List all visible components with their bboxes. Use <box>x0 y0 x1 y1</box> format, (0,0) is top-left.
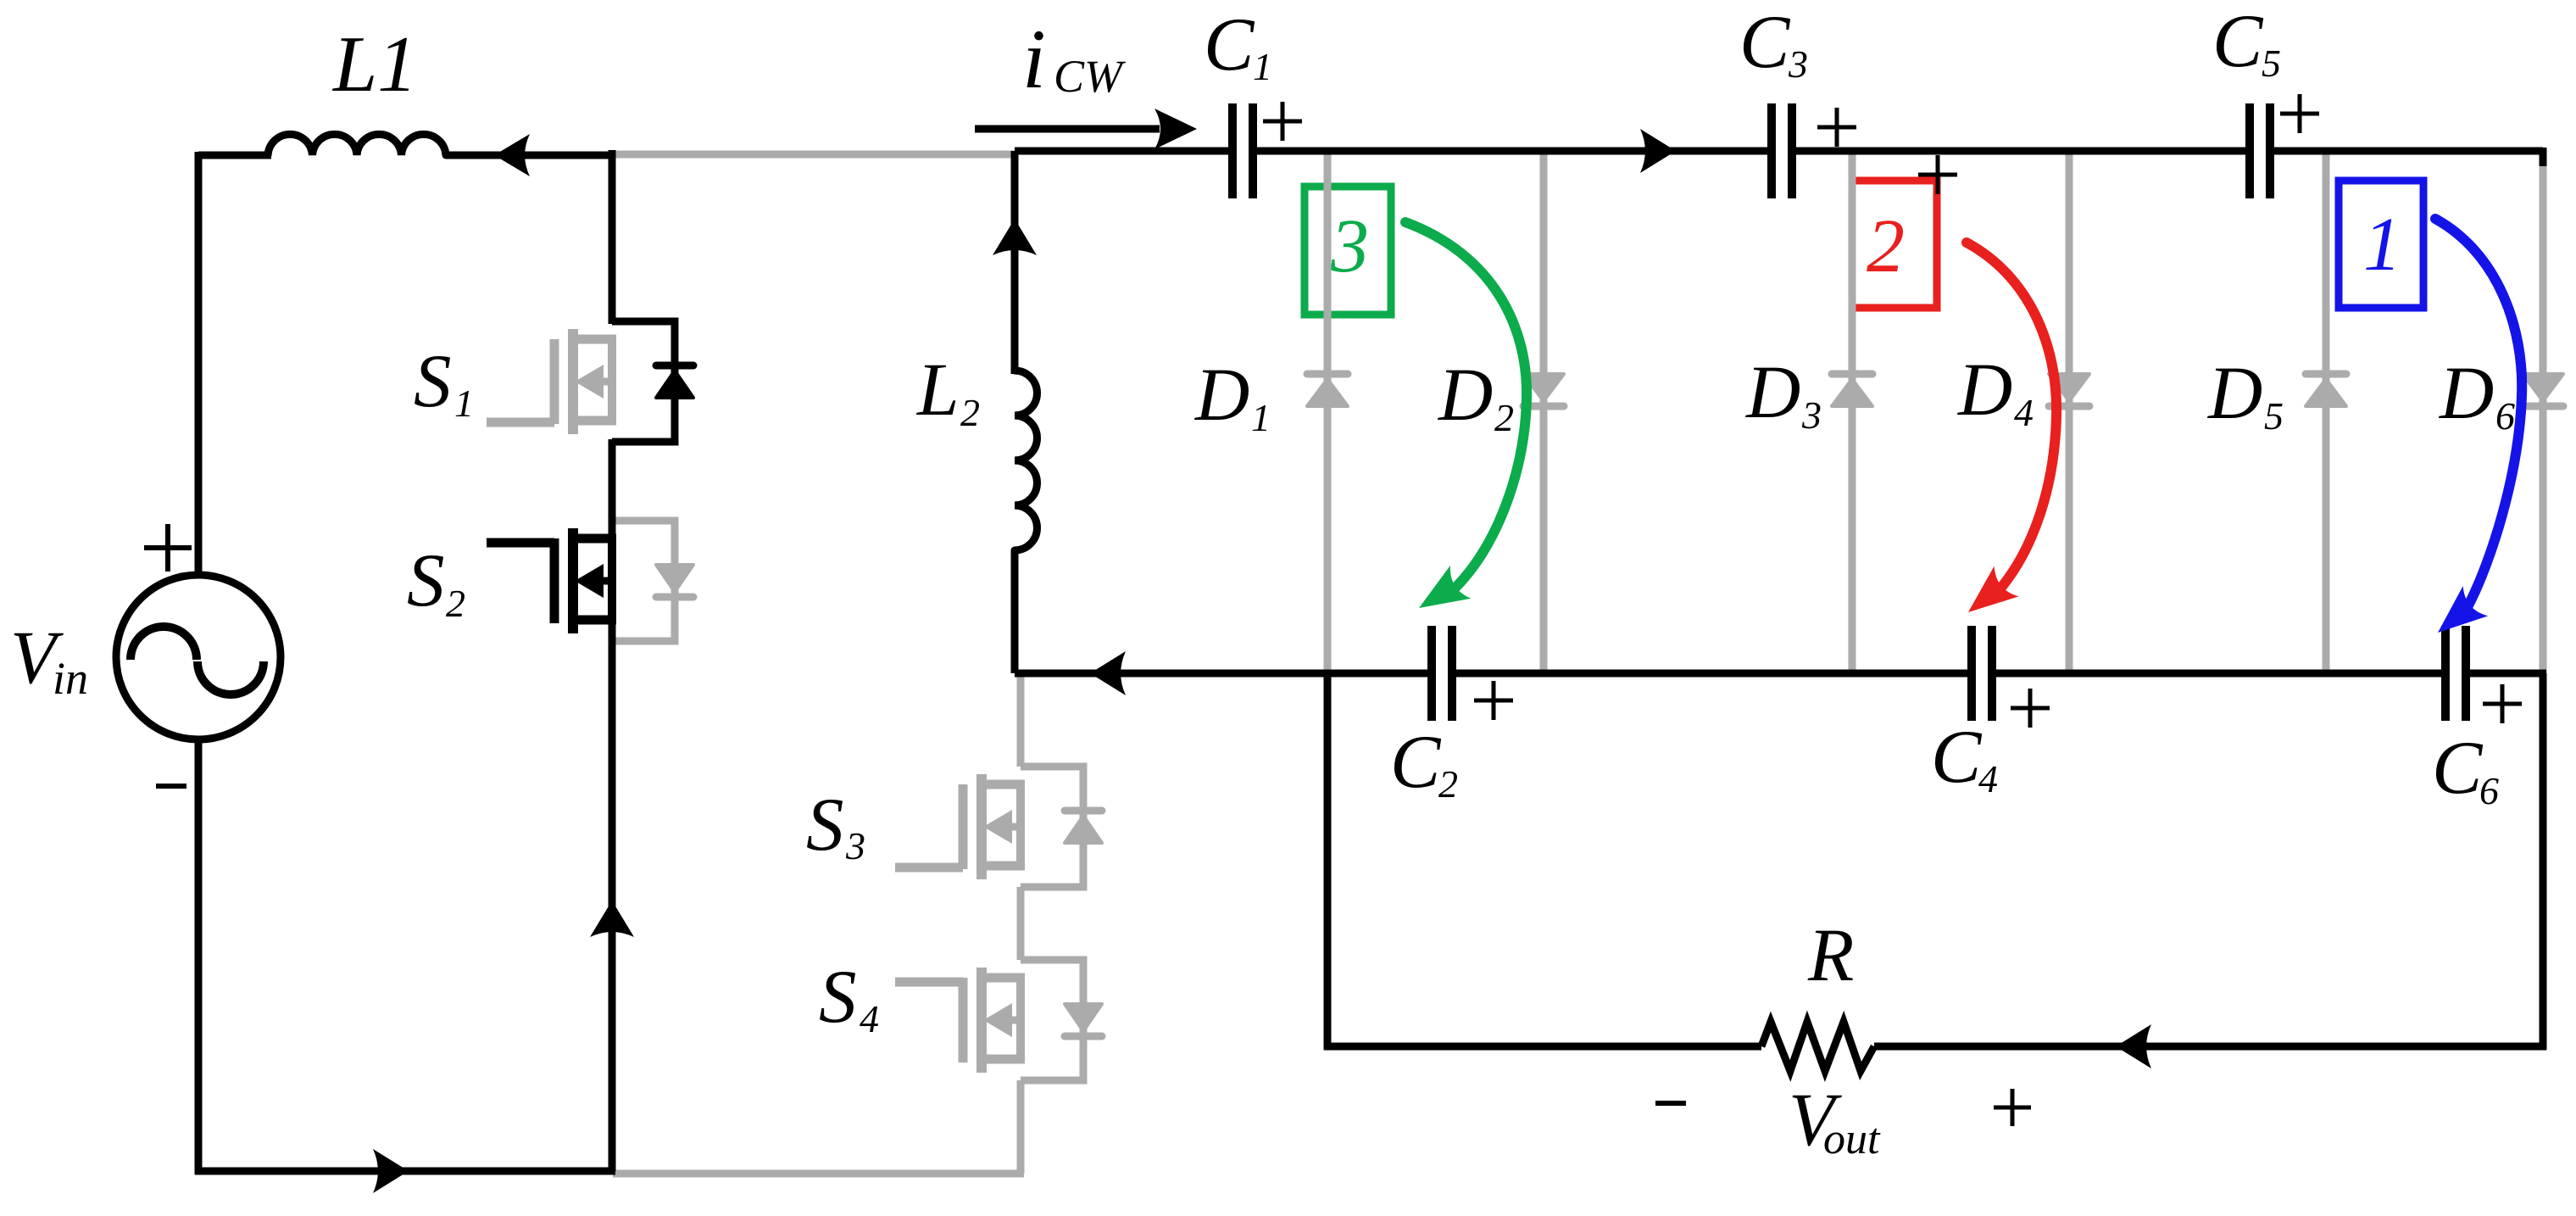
svg-text:C: C <box>1390 721 1442 804</box>
wire Vin bottom vertical <box>195 739 203 1174</box>
diode D3 <box>1832 374 1872 406</box>
inductor L2 <box>1015 371 1038 550</box>
label C5 <box>2212 0 2281 85</box>
svg-text:D: D <box>2439 352 2494 435</box>
svg-text:D: D <box>1194 354 1249 437</box>
resistor R <box>1761 1022 1874 1071</box>
svg-text:3: 3 <box>845 824 865 867</box>
wire Vin top vertical <box>195 152 203 575</box>
charge transfer arrow 2 (red) <box>1956 243 2057 628</box>
label L2 <box>915 349 980 434</box>
capacitor C1 <box>1232 103 1253 198</box>
wire S3 source to S4 drain <box>1017 887 1025 960</box>
label Vin <box>10 616 88 704</box>
current arrow bottom (right) <box>373 1149 409 1193</box>
svg-text:4: 4 <box>860 997 879 1040</box>
capacitor C2 <box>1432 626 1452 721</box>
wire middle rail seg3 <box>1992 670 2445 678</box>
label C4 <box>1931 716 1998 800</box>
svg-text:S: S <box>414 340 452 423</box>
capacitor C5 <box>2250 103 2270 198</box>
plus sign C3 <box>1817 108 1856 147</box>
loop marker box 2 (red) <box>1852 181 1937 308</box>
current arrow into L1 (left) <box>494 134 530 176</box>
label S3 <box>806 784 865 867</box>
svg-text:S: S <box>819 956 857 1039</box>
current arrow output (left) <box>2116 1024 2151 1068</box>
charge transfer arrow 1 (blue) <box>2425 219 2522 648</box>
wire middle rail seg1 <box>1015 670 1432 678</box>
current arrow top rail (right) <box>1640 129 1676 173</box>
wire switch branch upper <box>609 150 616 324</box>
svg-text:C: C <box>1931 716 1983 799</box>
wire diode branch D6 <box>2540 151 2547 673</box>
svg-text:S: S <box>407 539 445 622</box>
svg-text:2: 2 <box>1867 204 1905 288</box>
svg-text:5: 5 <box>2264 394 2284 438</box>
label C2 <box>1390 721 1458 806</box>
transistor S2 <box>487 528 616 633</box>
diode D1 <box>1307 374 1348 406</box>
label C3 <box>1739 1 1808 86</box>
sine wave in source <box>131 627 264 694</box>
label R <box>1807 914 1854 997</box>
svg-text:R: R <box>1807 914 1854 997</box>
svg-text:1: 1 <box>1253 45 1272 88</box>
wire L2 riser top <box>1011 151 1019 374</box>
wire top rail seg3 <box>1792 148 2250 155</box>
transistor S1 (mosfet symbol, inactive gray) <box>487 329 616 434</box>
svg-text:out: out <box>1823 1115 1881 1163</box>
loop marker label 1 (blue) <box>2363 203 2401 287</box>
diode D6 <box>2523 374 2563 406</box>
wire diode branch D3 <box>1849 151 1856 673</box>
svg-text:5: 5 <box>2262 42 2281 85</box>
svg-text:3: 3 <box>1788 42 1808 86</box>
wire middle rail seg4 <box>2466 670 2546 678</box>
wire middle rail seg2 <box>1452 670 1972 678</box>
wire top rail seg1 <box>1015 148 1232 155</box>
svg-text:CW: CW <box>1054 51 1127 102</box>
wire top rail seg4 <box>2270 148 2543 155</box>
label S2 <box>407 539 465 625</box>
wire bottom left segment <box>195 1168 615 1175</box>
wire top left segment <box>198 152 271 159</box>
wire gray link bottom (S4 source to input return) <box>613 1170 1024 1178</box>
wire diode branch D4 <box>2066 151 2073 673</box>
svg-text:4: 4 <box>1978 757 1998 800</box>
svg-text:C: C <box>1739 1 1791 84</box>
svg-text:2: 2 <box>446 582 465 625</box>
plus sign C2 <box>1474 681 1513 720</box>
plus sign Vin <box>144 524 192 572</box>
wire output loop bottom left <box>1324 1043 1761 1051</box>
label D3 <box>1745 351 1822 437</box>
svg-text:L1: L1 <box>331 20 417 109</box>
svg-text:D: D <box>1745 351 1800 434</box>
svg-text:in: in <box>53 653 88 704</box>
svg-text:i: i <box>1022 12 1046 106</box>
label D2 <box>1438 354 1514 439</box>
svg-text:L: L <box>915 349 960 432</box>
charge transfer arrow 3 (green) <box>1405 222 1527 625</box>
jog + body diode loop S1 (active path) <box>612 321 693 442</box>
wire gray link top (switch node to CW input) <box>609 151 1015 159</box>
wire diode branch D2 <box>1540 151 1548 673</box>
svg-text:2: 2 <box>960 391 980 434</box>
svg-text:6: 6 <box>2495 394 2515 438</box>
svg-text:6: 6 <box>2479 769 2499 812</box>
wire L1 to switch node <box>446 152 615 159</box>
current arrow middle rail (left) <box>1090 651 1126 695</box>
diode D2 <box>1523 374 1564 406</box>
body diode loop S4 <box>1021 960 1102 1080</box>
wire L2 riser bottom <box>1011 550 1019 673</box>
wire diode branch D1 <box>1324 151 1332 673</box>
loop marker box 3 (green) <box>1305 187 1391 315</box>
plus sign C1 <box>1263 102 1302 141</box>
current arrow up switch branch <box>590 901 634 937</box>
transistor S3 <box>895 774 1025 879</box>
plus sign C5 <box>2280 94 2319 133</box>
wire S3 drain <box>1017 673 1025 767</box>
capacitor C3 <box>1772 103 1792 198</box>
svg-text:1: 1 <box>454 382 474 425</box>
svg-text:1: 1 <box>2363 203 2401 287</box>
svg-text:4: 4 <box>2014 391 2034 434</box>
label D4 <box>1957 349 2034 434</box>
label D6 <box>2439 352 2515 438</box>
diode D4 <box>2049 374 2089 406</box>
svg-text:D: D <box>1957 349 2012 432</box>
minus sign Vin <box>156 784 186 789</box>
inductor L1 <box>268 134 446 155</box>
label S4 <box>819 956 879 1040</box>
diode D5 <box>2306 374 2346 406</box>
current arrow i_CW <box>975 109 1197 149</box>
wire S4 source <box>1017 1080 1025 1174</box>
minus sign Vout <box>1655 1101 1686 1106</box>
wire diode branch D5 <box>2323 151 2330 673</box>
svg-text:3: 3 <box>1801 393 1822 437</box>
svg-text:2: 2 <box>1438 762 1458 806</box>
svg-text:D: D <box>2207 352 2262 435</box>
svg-text:S: S <box>806 784 844 867</box>
label Vout <box>1789 1079 1881 1163</box>
loop marker box 1 (blue) <box>2339 181 2423 308</box>
svg-text:1: 1 <box>1251 396 1271 439</box>
plus sign C6 <box>2483 684 2522 723</box>
wire switch branch lower <box>609 439 616 1171</box>
body diode loop S2 (inactive gray) <box>612 521 693 641</box>
wire top rail seg2 <box>1253 148 1772 155</box>
transistor S4 <box>895 968 1025 1073</box>
label D5 <box>2207 352 2284 438</box>
svg-text:D: D <box>1438 354 1493 437</box>
loop marker label 3 (green) <box>1330 204 1369 288</box>
label i_CW <box>1022 12 1127 106</box>
svg-text:2: 2 <box>1494 396 1514 439</box>
plus sign Vout <box>1994 1089 2031 1126</box>
loop marker label 2 (red) <box>1867 204 1905 288</box>
wire output loop right vertical <box>2540 673 2547 1050</box>
current arrow up L2 <box>993 219 1037 255</box>
plus sign near loop 2 box <box>1918 155 1957 194</box>
svg-text:C: C <box>2212 0 2264 83</box>
capacitor C6 <box>2445 626 2466 721</box>
plus sign C4 <box>2011 689 2050 728</box>
wire top rail end stub <box>2540 148 2547 166</box>
wire output loop left vertical <box>1324 673 1332 1050</box>
capacitor C4 <box>1972 626 1992 721</box>
svg-text:C: C <box>1204 3 1255 86</box>
label C6 <box>2432 727 2499 812</box>
ac source Vin <box>116 575 281 739</box>
label S1 <box>414 340 474 425</box>
wire output loop bottom right <box>1874 1043 2546 1051</box>
label D1 <box>1194 354 1271 439</box>
label C1 <box>1204 3 1272 88</box>
body diode loop S3 <box>1021 767 1102 887</box>
svg-text:C: C <box>2432 727 2484 810</box>
svg-text:3: 3 <box>1330 204 1369 288</box>
label L1 <box>331 20 417 109</box>
